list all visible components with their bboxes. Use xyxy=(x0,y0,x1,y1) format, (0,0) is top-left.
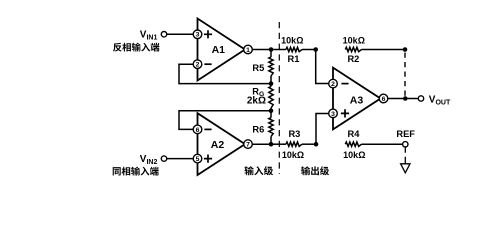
svg-text:REF: REF xyxy=(396,129,415,139)
svg-text:1: 1 xyxy=(246,47,250,54)
wire A2 pin6 feedback to RG/R6 node xyxy=(179,111,271,130)
svg-text:2: 2 xyxy=(196,62,200,69)
wire R6 to node xyxy=(270,137,272,145)
op-amp A1 xyxy=(193,19,252,81)
resistor RG 2k xyxy=(247,87,273,109)
svg-text:2kΩ: 2kΩ xyxy=(247,96,266,107)
wire R1 to A3 inverting node xyxy=(302,49,316,51)
svg-text:R1: R1 xyxy=(288,54,300,64)
label 反相输入端 inverting input xyxy=(113,43,159,52)
wire A1 output to node R1/R5 xyxy=(252,49,271,51)
wire R3/R4 node up to A3 pin3 xyxy=(316,114,329,145)
terminal VIN1 xyxy=(161,32,166,37)
wire A2 output to node R3/R6 xyxy=(252,143,271,145)
wire RG to node xyxy=(270,108,272,111)
wire R3 to A3 non-inverting node xyxy=(302,143,316,145)
junction R2/feedback xyxy=(403,47,408,52)
resistor R3 10k xyxy=(282,129,304,160)
svg-text:6: 6 xyxy=(382,96,386,103)
wire A1 pin2 feedback to R5/RG node xyxy=(179,64,271,83)
op-amp A2 xyxy=(193,113,252,175)
svg-text:5: 5 xyxy=(196,156,200,163)
wire node to R1 xyxy=(271,49,286,51)
svg-text:10kΩ: 10kΩ xyxy=(281,35,303,45)
wire R4 to REF terminal xyxy=(362,143,403,145)
wire node to RG xyxy=(270,84,272,87)
wire R2 to feedback node xyxy=(362,49,406,51)
op-amp A3 xyxy=(329,68,388,130)
junction A1out/R1/R5 xyxy=(269,47,274,52)
dashed separator input/output stage xyxy=(278,22,280,174)
wire dashed feedback from R2 node to output xyxy=(404,53,406,97)
wire A3 output to VOUT xyxy=(388,98,418,100)
svg-text:3: 3 xyxy=(331,111,335,118)
svg-text:R2: R2 xyxy=(347,54,359,64)
wire R1/R2 node down to A3 pin2 xyxy=(316,50,329,84)
wire R5 to node RG xyxy=(270,76,272,84)
wire node to R5 xyxy=(270,50,272,58)
junction R1/R2/A3pin2 xyxy=(313,47,318,52)
resistor R4 10k xyxy=(343,129,365,160)
svg-text:10kΩ: 10kΩ xyxy=(343,35,365,45)
junction R5/RG/A1fb xyxy=(269,81,274,86)
wire VIN2 to A2 pin5 xyxy=(167,158,194,160)
svg-text:R4: R4 xyxy=(348,129,361,139)
ground arrow below REF xyxy=(401,147,410,172)
svg-text:2: 2 xyxy=(331,81,335,88)
wire node to R6 xyxy=(270,111,272,118)
label 输入级 input stage xyxy=(244,166,273,175)
terminal VOUT xyxy=(418,96,423,101)
svg-text:A1: A1 xyxy=(212,44,226,56)
wire node to R3 xyxy=(271,143,286,145)
resistor R2 10k xyxy=(343,35,365,64)
svg-text:R5: R5 xyxy=(252,63,264,73)
resistor R1 10k xyxy=(281,35,303,64)
label 输出级 output stage xyxy=(301,166,329,175)
svg-text:R6: R6 xyxy=(252,124,264,134)
resistor R6 xyxy=(252,118,273,137)
svg-text:6: 6 xyxy=(196,127,200,134)
svg-text:7: 7 xyxy=(246,142,250,149)
terminal REF xyxy=(403,142,408,147)
junction A2out/R3/R6 xyxy=(269,142,274,147)
svg-text:10kΩ: 10kΩ xyxy=(343,150,365,160)
resistor R5 xyxy=(252,57,273,76)
wire VIN1 to A1 pin3 xyxy=(167,33,194,35)
svg-text:R3: R3 xyxy=(288,129,300,139)
svg-text:A2: A2 xyxy=(211,139,225,151)
junction output/feedback xyxy=(403,96,408,101)
junction R3/R4/A3pin3 xyxy=(314,142,319,147)
svg-text:10kΩ: 10kΩ xyxy=(282,150,304,160)
svg-text:A3: A3 xyxy=(350,94,364,106)
junction RG/R6/A2fb xyxy=(269,109,274,114)
svg-text:3: 3 xyxy=(196,32,200,39)
label 同相输入端 non-inverting input xyxy=(113,167,159,176)
terminal VIN2 xyxy=(161,156,166,161)
